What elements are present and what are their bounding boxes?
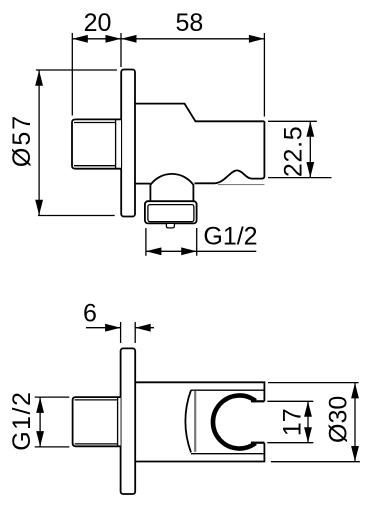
dimension 6 lines and arrows [86, 324, 154, 332]
dimension 17 text [279, 408, 307, 436]
svg-text:G1/2: G1/2 [8, 391, 36, 451]
extension lines D30 [268, 383, 360, 462]
dimension 20 text [84, 9, 112, 37]
hidden edge (gray) of holder slot [218, 184, 265, 186]
dimension 6 text [83, 300, 97, 328]
svg-text:G1/2: G1/2 [203, 223, 257, 251]
dimension D30 text [324, 396, 352, 443]
svg-text:22.5: 22.5 [279, 126, 307, 177]
holder ring chamfer lines (plan view) [191, 390, 264, 454]
dimension D57 line and arrows [35, 70, 43, 215]
outlet nut inner line [148, 205, 194, 222]
dimension D57 text [8, 114, 36, 167]
extension line at holder right face [263, 33, 265, 117]
dimension 22.5 line and arrows [306, 121, 314, 177]
dimension 17 line and arrows [304, 401, 312, 442]
wall flange plate (plan view) [121, 348, 136, 494]
svg-text:Ø30: Ø30 [324, 396, 352, 443]
holder cone knob (plan view) [185, 390, 195, 452]
holder block outline (plan view) [135, 382, 264, 461]
dimension 58 text [175, 9, 203, 37]
svg-text:58: 58 [175, 9, 203, 37]
holder body outline (side view) [136, 104, 265, 184]
dimension G1/2 (plan) line and arrows [36, 397, 44, 446]
threaded inlet (side view) [72, 119, 121, 168]
outlet boss dome (side view) [136, 174, 194, 201]
extension line at flange left face [120, 33, 122, 67]
dimension D30 line and arrows [351, 383, 359, 462]
dimension 20 line and arrows [72, 35, 121, 43]
extension line at inlet left face [71, 33, 73, 116]
svg-text:6: 6 [83, 300, 97, 328]
extension lines 6 [121, 322, 136, 343]
holder C-ring (plan view, thick) [213, 395, 256, 448]
dimension G1/2 (top view) extension lines [146, 228, 197, 256]
extension lines 17 [267, 401, 313, 442]
extension line 22.5 top [268, 120, 317, 122]
svg-text:17: 17 [279, 408, 307, 436]
outlet nipple tab [166, 223, 174, 228]
dimension G1/2 text [203, 223, 257, 251]
holder slot edges (plan view) [251, 401, 264, 442]
extension lines G1/2 (plan) [35, 397, 70, 447]
svg-text:Ø57: Ø57 [8, 114, 36, 167]
extension line flange bottom [38, 215, 115, 217]
extension line flange top [36, 69, 117, 71]
threaded inlet (plan view) [73, 397, 121, 446]
dimension G1/2 line and arrows [146, 247, 256, 255]
outlet nut outer (side view) [145, 201, 197, 223]
dimension 22.5 text [279, 126, 307, 177]
dimension G1/2 (plan) text [8, 391, 36, 451]
extension line 22.5 bottom [268, 177, 332, 179]
dimension 58 line and arrows [121, 35, 264, 43]
wall flange plate (side view) [121, 70, 135, 217]
svg-text:20: 20 [84, 9, 112, 37]
